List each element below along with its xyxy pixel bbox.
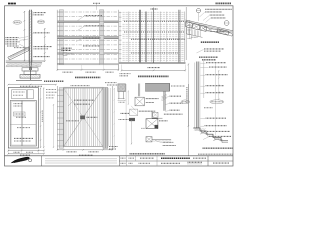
eave roof top lines bbox=[185, 20, 233, 31]
eave mid note bbox=[210, 31, 225, 33]
eave rafter x-box right bbox=[217, 29, 229, 36]
head dim below bbox=[118, 99, 126, 101]
center post bbox=[163, 91, 165, 111]
window inner note 2 bbox=[17, 127, 31, 129]
logo registered circle bbox=[29, 159, 32, 162]
ground hatch band bbox=[6, 63, 8, 67]
eave balloon leader bbox=[198, 13, 200, 21]
louver right edge line bbox=[111, 86, 113, 150]
sliding door meeting stile bbox=[21, 101, 23, 147]
louver dim texts bbox=[67, 151, 77, 153]
right section right dim ladder bbox=[218, 70, 220, 100]
right plan text band 1 bbox=[124, 20, 185, 22]
right plan title bbox=[138, 75, 169, 77]
right section note rows bbox=[206, 62, 226, 64]
louver right pre-labels bbox=[105, 82, 117, 84]
title block texts row2 bbox=[121, 162, 126, 164]
head stripes note bbox=[171, 85, 185, 87]
window right dim ladder 1 bbox=[40, 88, 42, 149]
jamb mini detail bbox=[130, 109, 138, 115]
jamb note row bbox=[121, 112, 130, 114]
sheet border bbox=[5, 6, 234, 166]
louver top dimension bbox=[71, 85, 91, 87]
window bottom note block bbox=[14, 137, 34, 139]
frame corner chip bbox=[155, 125, 158, 128]
title block mid horizontal bbox=[119, 160, 233, 162]
jamb dark chip bbox=[129, 118, 135, 121]
window bottom dim drop lines bbox=[7, 148, 9, 154]
eave note row 1 bbox=[205, 8, 232, 10]
sill small x-box bbox=[146, 137, 152, 142]
footing base with hatch bbox=[20, 75, 40, 79]
eave sub note rows bbox=[204, 48, 224, 50]
eave blocking x-box 1 bbox=[186, 22, 193, 29]
sill note rows bbox=[204, 130, 230, 132]
sill corner detail upper bbox=[152, 112, 163, 119]
louver diagonal brace down bbox=[64, 88, 104, 147]
eave left dim ladder bbox=[188, 20, 190, 39]
company logo swoosh bbox=[12, 157, 29, 162]
head stripes block bbox=[145, 83, 169, 91]
wall note lower bbox=[34, 46, 53, 48]
louver extra slats right bbox=[108, 88, 110, 146]
stud pair upper bbox=[138, 84, 140, 97]
glazing caption line 2 bbox=[198, 153, 233, 155]
louver bottom dimension line bbox=[58, 149, 113, 151]
cluster B title bbox=[75, 76, 101, 78]
window right dim ladder 2 bbox=[43, 88, 45, 149]
window inner note 1 bbox=[14, 103, 24, 105]
louver vertical slats bbox=[64, 88, 66, 146]
divider line before right plan bbox=[118, 10, 120, 71]
title block divider 3 bbox=[126, 156, 128, 166]
window transom panel left bbox=[12, 90, 27, 99]
divider line between section and plan bbox=[56, 10, 58, 71]
center post notes bbox=[170, 95, 182, 97]
sub divider line bbox=[125, 84, 127, 156]
eave note row 2 bbox=[205, 11, 222, 13]
eave balloon marker bbox=[196, 8, 200, 12]
window right note block bbox=[46, 89, 57, 91]
head crosshatch box bbox=[118, 84, 126, 92]
right plan dim ladder bbox=[119, 12, 121, 63]
right plan text band 4 bbox=[131, 52, 178, 54]
plan note 1 bbox=[85, 15, 103, 17]
right plan dim text bbox=[148, 67, 161, 69]
right section wall lines bbox=[194, 63, 196, 129]
eave wall studs bbox=[186, 28, 188, 34]
right plan centerline post bbox=[153, 8, 155, 63]
plan bottom edge line bbox=[57, 63, 118, 65]
louver small note bbox=[66, 120, 79, 122]
address ruled lines bbox=[45, 158, 117, 160]
wall mid note bbox=[34, 32, 51, 34]
eave rafter lines bbox=[204, 27, 230, 33]
window transom panel right bbox=[27, 90, 33, 99]
right plan text band 2 bbox=[124, 31, 185, 33]
divider line before eave detail bbox=[185, 7, 187, 60]
frame note bbox=[159, 120, 167, 122]
sill step profile bbox=[193, 128, 228, 141]
title block top line bbox=[5, 155, 234, 157]
eave balloon right bbox=[224, 21, 229, 26]
head post below bbox=[118, 92, 120, 100]
mullion x-box bbox=[135, 97, 144, 106]
louver right small labels bbox=[109, 146, 118, 148]
title block texts row1 bbox=[121, 157, 126, 159]
right plan fine joist rows bbox=[123, 11, 185, 13]
louver left wall band bbox=[56, 86, 58, 150]
mullion note 2 bbox=[146, 102, 154, 104]
left notes block bbox=[6, 37, 20, 39]
divider before right section bbox=[188, 84, 190, 156]
window far right dim bbox=[53, 104, 55, 148]
window inner label row bbox=[16, 116, 26, 118]
left notes leader lines bbox=[19, 37, 28, 39]
sheet background bbox=[0, 0, 237, 168]
sheet number cell text bbox=[213, 162, 230, 164]
plan beam line 1 bbox=[57, 21, 118, 22]
eave blocking x-box 3 bbox=[200, 25, 207, 31]
capsule label right bbox=[37, 20, 44, 24]
right section inner face line bbox=[203, 61, 205, 99]
frame dim text bbox=[141, 127, 145, 129]
window inner label box bbox=[14, 112, 26, 116]
eave blocking x-box 2 bbox=[193, 23, 200, 30]
sill step x-brace 2 bbox=[213, 137, 221, 140]
right section left dim line bbox=[187, 64, 189, 127]
louver diagonal brace up bbox=[64, 88, 104, 147]
cluster B dimension texts bbox=[63, 71, 73, 73]
footing upper block bbox=[22, 68, 38, 71]
title block divider 2 bbox=[118, 156, 120, 166]
scale stamp top-right margin bbox=[216, 2, 232, 4]
sill step x-brace 1 bbox=[200, 131, 206, 134]
title block divider 5 bbox=[156, 156, 158, 166]
left wall section vertical member bbox=[29, 10, 31, 70]
section detail heading bbox=[199, 56, 218, 58]
sliding door mid rail bbox=[10, 123, 36, 125]
mullion leader bbox=[131, 106, 136, 111]
title block divider 4 bbox=[135, 156, 137, 161]
capsule label section right bbox=[210, 100, 224, 104]
louver dark label box bbox=[81, 116, 85, 119]
logo box divider bbox=[41, 156, 43, 166]
plan joist dashed rows upper-middle bbox=[65, 11, 119, 13]
frame x-box large bbox=[146, 119, 158, 129]
sill corner note bbox=[164, 113, 183, 115]
drawing number stamp top-left margin bbox=[8, 3, 16, 5]
plan legend block bbox=[62, 47, 73, 49]
title block divider 6 bbox=[207, 156, 209, 166]
plan note 4 bbox=[83, 45, 100, 47]
left wall outer finish lines bbox=[27, 11, 29, 62]
right plan dimension line bbox=[122, 69, 186, 71]
eave rafter cross marks bbox=[208, 28, 213, 32]
left dimension line bbox=[23, 11, 25, 62]
plan note 2 bbox=[85, 25, 105, 27]
right plan vertical wall lines bbox=[128, 12, 130, 63]
right plan small note bbox=[120, 73, 131, 75]
louver panel frame bbox=[64, 88, 104, 147]
right section note rows lower bbox=[206, 117, 227, 119]
eave detail title bbox=[201, 41, 219, 43]
footing mid block bbox=[24, 71, 36, 75]
sill hatch bbox=[194, 128, 196, 131]
frame dim ladder bbox=[131, 120, 133, 145]
plan left wall band (poche) bbox=[59, 10, 63, 65]
eave note row 4 bbox=[211, 17, 226, 19]
right dimension line bbox=[44, 28, 46, 62]
sill hatch right bbox=[153, 140, 155, 142]
eave lower dim marks bbox=[191, 35, 193, 40]
ground line bbox=[6, 60, 44, 62]
cross section title left bbox=[44, 80, 64, 82]
right plan bottom wall line bbox=[119, 61, 186, 63]
eave note row 3 bbox=[210, 14, 225, 16]
plan beam line 3 bbox=[57, 52, 118, 54]
sill line right bbox=[152, 139, 171, 141]
wall note text upper bbox=[34, 12, 47, 14]
capsule label left bbox=[13, 20, 22, 24]
louver annotation 1 bbox=[74, 99, 94, 101]
plan column band mid bbox=[100, 10, 104, 65]
joinery caption bbox=[130, 153, 166, 155]
right section outer line bbox=[214, 62, 216, 135]
center post hatch bbox=[162, 94, 167, 96]
footing base line bbox=[16, 79, 42, 81]
louver right dim ladder bbox=[113, 88, 115, 148]
cluster A bottom dimension line bbox=[8, 84, 56, 86]
sloped stair stringer with hatch bbox=[8, 47, 29, 60]
grid stub above plan bbox=[96, 3, 98, 10]
mullion note 1 bbox=[146, 98, 159, 100]
right section small width note bbox=[204, 107, 213, 109]
sill notes bbox=[163, 141, 174, 143]
right plan text band 3 bbox=[131, 38, 185, 40]
window bottom dimension lines bbox=[8, 150, 44, 152]
louver right wall band bbox=[103, 88, 108, 149]
stringer note bbox=[14, 47, 27, 49]
capsule label section left bbox=[181, 100, 189, 104]
window elevation outer frame bbox=[8, 88, 38, 149]
plan note 3 bbox=[83, 37, 101, 39]
eave gutter tip bbox=[229, 32, 233, 36]
window glazing frame bbox=[10, 101, 36, 147]
plan beam line 2 bbox=[57, 37, 118, 39]
cluster B bottom dimension line bbox=[57, 69, 118, 71]
mullion dim ladder bbox=[127, 91, 129, 105]
wall note near grade bbox=[34, 56, 51, 58]
footing centerline bbox=[30, 67, 32, 81]
glazing caption line bbox=[203, 147, 234, 149]
